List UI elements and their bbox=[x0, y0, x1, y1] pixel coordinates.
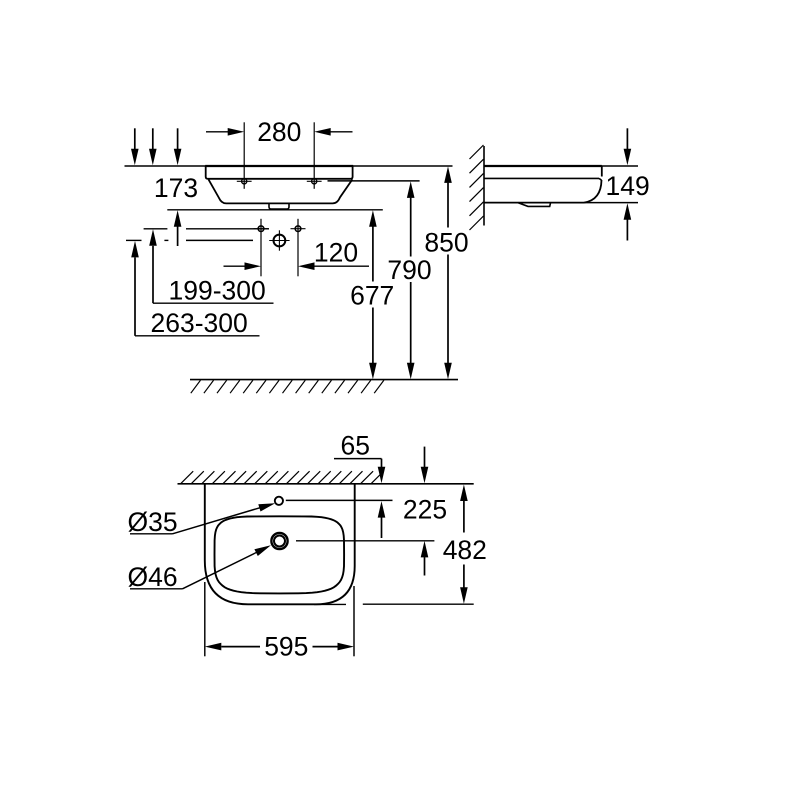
leader O35 bbox=[128, 503, 276, 537]
plan hole O46 inner bbox=[274, 536, 285, 547]
floor line bbox=[190, 379, 458, 381]
label 173 bbox=[154, 173, 198, 203]
reference line 199-300 level bbox=[144, 228, 269, 230]
dimension 850 bbox=[424, 166, 468, 379]
dimension 199-300 arrow bbox=[149, 229, 157, 303]
basin front drain tab bbox=[269, 204, 289, 210]
svg-text:595: 595 bbox=[264, 632, 308, 662]
svg-text:280: 280 bbox=[257, 117, 301, 147]
dimension 65 lower arrow bbox=[378, 501, 386, 538]
plan wall line bbox=[178, 483, 474, 485]
dimension 595 bbox=[205, 632, 354, 662]
dimension 677 bbox=[350, 210, 394, 379]
svg-text:Ø46: Ø46 bbox=[128, 562, 178, 592]
side bowl profile bbox=[584, 180, 602, 203]
O46 hole extension line bbox=[296, 540, 434, 542]
svg-text:173: 173 bbox=[154, 173, 198, 203]
svg-text:482: 482 bbox=[443, 535, 487, 565]
left tap hole extension line bbox=[243, 122, 245, 189]
svg-text:Ø35: Ø35 bbox=[128, 507, 178, 537]
side wall hatching bbox=[470, 145, 484, 230]
plan hole O35 bbox=[275, 497, 283, 505]
extension line 790 level bbox=[328, 180, 420, 182]
plan hole O46 outer bbox=[271, 533, 287, 549]
dimension 65 leader bbox=[334, 431, 385, 484]
down arrow 3 at wall top bbox=[174, 128, 182, 165]
extension line top (850 level) bbox=[125, 165, 453, 167]
dimension 225 upper arrow bbox=[421, 447, 429, 484]
dimension 120 left arrow bbox=[224, 262, 262, 270]
svg-text:225: 225 bbox=[403, 494, 447, 524]
side bottom extension line bbox=[584, 202, 638, 204]
main faucet hole (front) bbox=[269, 230, 289, 250]
svg-text:263-300: 263-300 bbox=[151, 308, 248, 338]
dimension 120 label bbox=[314, 238, 358, 268]
595 right extension line bbox=[353, 586, 355, 656]
label 199-300 bbox=[169, 275, 266, 305]
side view wall line bbox=[483, 146, 485, 226]
down arrow 2 at wall top bbox=[149, 128, 157, 165]
dimension 280 left arrow bbox=[206, 128, 244, 136]
595 left extension line bbox=[204, 582, 206, 656]
482 bottom extension line bbox=[363, 603, 474, 605]
left tap hole (front) bbox=[237, 179, 252, 184]
dimension 280 label bbox=[257, 117, 301, 147]
svg-text:120: 120 bbox=[314, 238, 358, 268]
side rim underside line bbox=[484, 178, 602, 180]
dimension 173 lower arrow bbox=[174, 210, 182, 246]
bracket line 263-300 bbox=[135, 335, 260, 337]
faucet hole left small (installation) bbox=[254, 226, 269, 232]
side basin bottom line bbox=[484, 202, 584, 204]
side drain trap outline bbox=[518, 203, 551, 207]
O35 hole extension line bbox=[286, 499, 393, 501]
basin front rim band outline bbox=[206, 167, 353, 179]
basin front top rim line (bold) bbox=[205, 165, 353, 167]
basin front edge extension segment bbox=[314, 603, 346, 605]
down arrow 1 at wall top bbox=[131, 128, 139, 165]
dimension 225 label bbox=[403, 494, 447, 524]
svg-text:149: 149 bbox=[605, 171, 649, 201]
plan basin outer outline bbox=[205, 484, 355, 605]
label 263-300 bbox=[151, 308, 248, 338]
bracket line 199-300 bbox=[153, 302, 274, 304]
dimension 280 right arrow bbox=[314, 128, 352, 136]
extension line 677 level (basin bottom) bbox=[167, 209, 382, 211]
svg-text:790: 790 bbox=[387, 255, 431, 285]
dimension 263-300 arrow bbox=[131, 241, 139, 336]
dimension 790 bbox=[387, 181, 431, 379]
dimension 482 bbox=[443, 485, 487, 604]
dimension 149 bbox=[605, 128, 649, 240]
svg-text:199-300: 199-300 bbox=[169, 275, 266, 305]
right small hole vertical line bbox=[297, 219, 299, 276]
leader O46 bbox=[128, 545, 271, 592]
left small hole vertical line bbox=[260, 219, 262, 276]
side basin top rim (bold) bbox=[484, 165, 602, 167]
svg-text:850: 850 bbox=[424, 227, 468, 257]
dimension 120 right arrow bbox=[298, 262, 369, 270]
reference line 263-300 level bbox=[126, 239, 253, 241]
floor hatching bbox=[191, 380, 384, 393]
plan wall hatching bbox=[181, 471, 384, 483]
side extension line top bbox=[484, 165, 638, 167]
faucet hole right small (installation) bbox=[291, 226, 306, 232]
right tap hole extension line bbox=[313, 122, 315, 189]
side basin right edge bbox=[601, 166, 603, 177]
plan basin inner outline bbox=[215, 516, 345, 593]
basin front bowl outline bbox=[209, 179, 353, 203]
svg-text:65: 65 bbox=[341, 431, 370, 461]
right tap hole (front) bbox=[307, 179, 322, 184]
dimension 225 lower arrow bbox=[421, 541, 429, 576]
